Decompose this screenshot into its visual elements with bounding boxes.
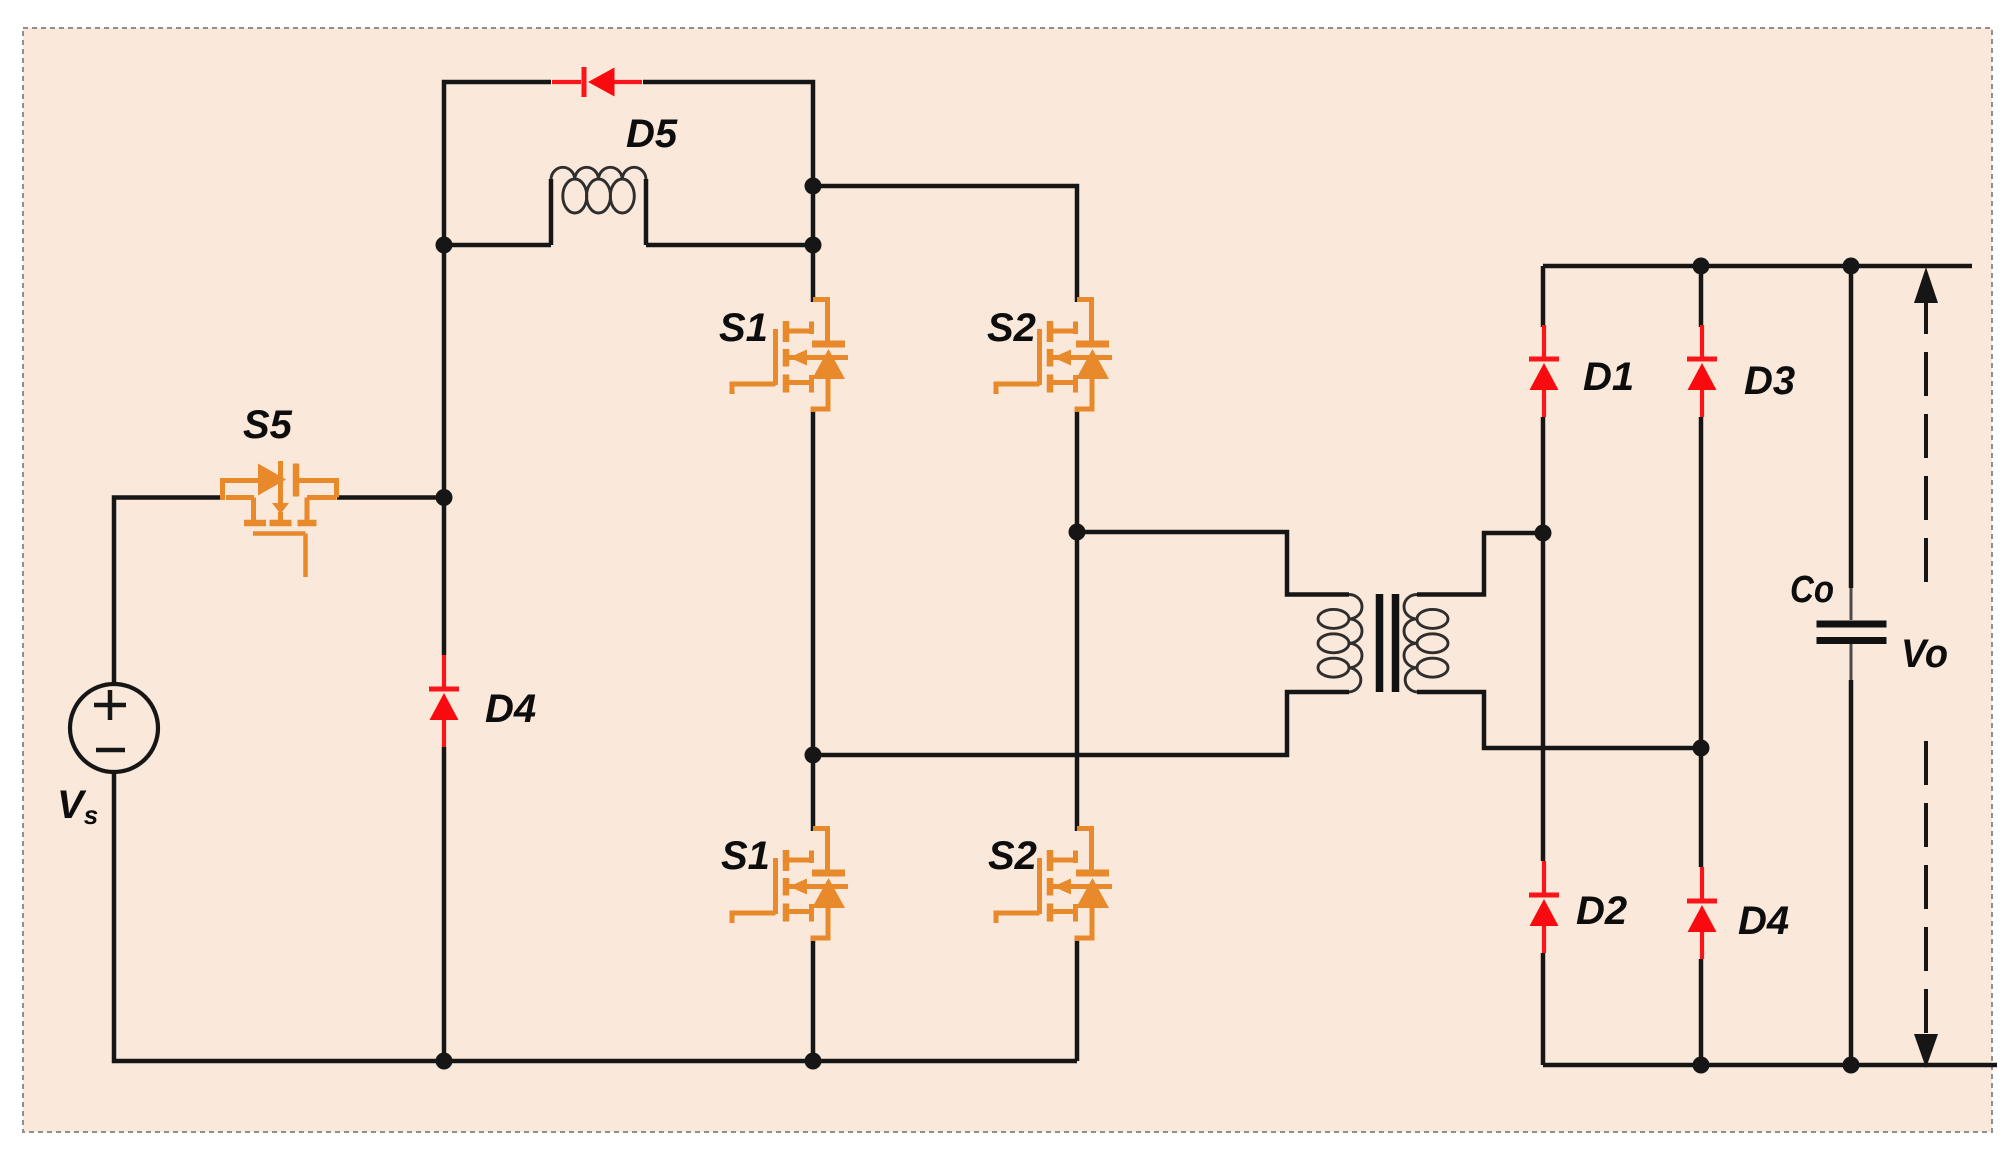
svg-text:Co: Co bbox=[1790, 569, 1834, 611]
svg-text:D4: D4 bbox=[1738, 899, 1789, 943]
svg-text:S1: S1 bbox=[721, 834, 770, 878]
svg-text:S5: S5 bbox=[243, 403, 293, 447]
svg-text:Vo: Vo bbox=[1901, 632, 1948, 676]
svg-text:S2: S2 bbox=[987, 306, 1036, 350]
svg-text:S2: S2 bbox=[988, 834, 1037, 878]
svg-text:D3: D3 bbox=[1744, 359, 1795, 403]
svg-text:S1: S1 bbox=[719, 306, 768, 350]
svg-text:D4: D4 bbox=[485, 687, 536, 731]
svg-text:D1: D1 bbox=[1583, 355, 1634, 399]
svg-text:D5: D5 bbox=[626, 112, 678, 156]
svg-text:D2: D2 bbox=[1576, 889, 1627, 933]
